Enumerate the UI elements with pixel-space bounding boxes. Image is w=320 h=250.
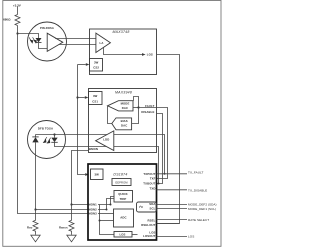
node laser anode dot bbox=[53, 133, 55, 135]
wire RSELOUT stub bbox=[157, 223, 180, 225]
svg-text:TXPOUT: TXPOUT bbox=[143, 172, 155, 176]
arrowhead LOS bbox=[142, 53, 146, 56]
svg-text:EEPROM: EEPROM bbox=[115, 180, 128, 184]
block 3W CS2 bbox=[90, 59, 103, 72]
wire D1 cathode to TIA input bbox=[39, 43, 48, 49]
op-amp LA limiting amplifier bbox=[96, 33, 111, 52]
block ADC bbox=[114, 209, 134, 227]
svg-text:3W: 3W bbox=[94, 173, 99, 177]
wire VCC to resistor bbox=[17, 7, 19, 15]
svg-text:ADC: ADC bbox=[120, 216, 126, 220]
block 3W (DS1874) bbox=[91, 169, 104, 180]
resistor RMD bbox=[33, 210, 38, 235]
svg-text:680Ω: 680Ω bbox=[3, 18, 11, 22]
wire mux bus to ADC and LOS bbox=[100, 205, 115, 235]
wire LOS net to DS1874 LOS pin bbox=[157, 55, 180, 224]
wire LOSOUT to LOS external bbox=[157, 236, 188, 238]
wire MODE DAC top hook to fault column bbox=[134, 97, 139, 108]
wire node A to ROSA photodiode anode bbox=[18, 34, 39, 39]
arrowhead 3W bus into DS1874 bbox=[85, 173, 89, 176]
wire 3W bus rail bbox=[78, 65, 86, 175]
block I2C interface bbox=[137, 202, 157, 212]
light arrows into D1 bbox=[29, 37, 37, 43]
resistor RBMON bbox=[69, 205, 74, 235]
wire TIA out- to LA bbox=[59, 44, 96, 46]
svg-text:LOSOUT: LOSOUT bbox=[143, 234, 156, 238]
svg-text:TXD: TXD bbox=[150, 187, 156, 191]
node A junction dot bbox=[16, 32, 18, 34]
wire laser cathode to LDD bbox=[55, 142, 107, 146]
node MON1 dot bbox=[110, 204, 112, 206]
node bus dot bbox=[99, 220, 101, 222]
wire MODE DAC point to BIAS DAC point bbox=[108, 106, 112, 124]
node FAULT junction dot bbox=[137, 106, 139, 108]
IC U3 DS1874 box bbox=[88, 164, 157, 240]
wire resistor to node A bbox=[17, 26, 19, 34]
svg-text:TX_FAULT: TX_FAULT bbox=[188, 171, 204, 175]
node stub upper dot bbox=[164, 173, 166, 175]
svg-text:3W: 3W bbox=[93, 94, 98, 98]
op-amp TIA (ROSA preamp) bbox=[47, 33, 63, 51]
block EEPROM bbox=[112, 179, 131, 186]
wire MON1 to QUICK TRIP bbox=[98, 197, 114, 205]
node BMON junction dot bbox=[70, 203, 72, 205]
svg-text:LOS: LOS bbox=[147, 52, 153, 56]
svg-text:DISABLE: DISABLE bbox=[141, 110, 154, 114]
wire BMON to MON1 bbox=[72, 151, 89, 205]
wire MON2 to QUICK TRIP bbox=[98, 199, 114, 210]
wire node A rail down to MON3 bbox=[18, 34, 89, 214]
wire MODE DAC out to junction bbox=[133, 107, 139, 109]
wire SDA to MODE_DEF2 bbox=[157, 204, 188, 206]
wire FAULT net to TXF bbox=[157, 108, 168, 179]
svg-text:DFB TOSA: DFB TOSA bbox=[38, 126, 53, 130]
block BIAS DAC bbox=[112, 118, 132, 130]
wire 3W bus arrow into CS1 bbox=[78, 97, 85, 99]
svg-text:TRIP: TRIP bbox=[120, 197, 127, 201]
IC U1 MAX3748 box bbox=[90, 29, 157, 75]
svg-text:MON3: MON3 bbox=[88, 212, 97, 216]
PIN-ROSA circle bbox=[28, 22, 67, 61]
wire LDD stub upper to TXF row bbox=[114, 135, 165, 174]
svg-text:MODE_DEF1 (SCL): MODE_DEF1 (SCL) bbox=[188, 207, 216, 211]
node PD rail junction dot bbox=[34, 208, 36, 210]
svg-text:MODE: MODE bbox=[121, 102, 130, 106]
svg-text:+3.3V: +3.3V bbox=[13, 4, 21, 8]
wire TIA out+ to LA bbox=[55, 38, 96, 40]
wire junction down to BIAS DAC out bbox=[132, 108, 139, 124]
block QUICK TRIP bbox=[114, 191, 133, 203]
svg-text:LOS: LOS bbox=[119, 233, 125, 237]
laser diode D3 (TOSA) bbox=[51, 135, 57, 143]
svg-text:PIN-ROSA: PIN-ROSA bbox=[40, 26, 54, 30]
svg-text:LOS: LOS bbox=[188, 234, 194, 238]
node 3W bus junction dot bbox=[76, 96, 78, 98]
svg-text:MAX3748: MAX3748 bbox=[112, 30, 129, 34]
svg-text:SCL: SCL bbox=[150, 206, 156, 210]
wire DISABLE net to TXBOUT bbox=[157, 114, 163, 184]
svg-text:LA: LA bbox=[100, 41, 104, 45]
photodiode D2 monitor (TOSA) bbox=[32, 135, 38, 143]
block LOS (DS1874) bbox=[114, 232, 132, 238]
wire 3W bus arrow into CS2 bbox=[78, 64, 86, 66]
wire SCL to MODE_DEF1 bbox=[157, 208, 188, 210]
block 3W CS1 bbox=[89, 92, 103, 105]
svg-text:CS1: CS1 bbox=[92, 99, 98, 103]
wire LA to LOS arrow bbox=[104, 48, 143, 55]
node stub lower dot bbox=[158, 183, 160, 185]
svg-text:QUICK: QUICK bbox=[118, 192, 128, 196]
svg-text:TXBOUT: TXBOUT bbox=[143, 182, 155, 186]
wire LOS block stub bbox=[132, 234, 138, 236]
wire bus to ADC bbox=[100, 220, 114, 222]
wire PD anode down to MON2 bbox=[36, 142, 89, 209]
svg-text:TXF: TXF bbox=[150, 177, 156, 181]
ground (RBMON) bbox=[67, 235, 76, 242]
svg-text:CS2: CS2 bbox=[93, 66, 99, 70]
wire TXD to TX_DISABLE bbox=[157, 189, 188, 191]
svg-text:FAULT: FAULT bbox=[145, 104, 155, 108]
svg-text:MAX3948: MAX3948 bbox=[115, 90, 132, 94]
svg-text:BIAS: BIAS bbox=[121, 119, 128, 123]
wire FAULT junction to pin bbox=[139, 107, 157, 109]
svg-text:DAC: DAC bbox=[122, 106, 128, 110]
wire TOSA anode top bbox=[36, 134, 55, 136]
wire LDD stub lower to TXBOUT row bbox=[114, 147, 159, 184]
node MON2 dot bbox=[106, 209, 108, 211]
block MODE DAC bbox=[108, 101, 134, 111]
svg-text:RSELOUT: RSELOUT bbox=[141, 223, 155, 227]
svg-text:TX_DISABLE: TX_DISABLE bbox=[188, 188, 207, 192]
svg-text:DS1874: DS1874 bbox=[113, 173, 127, 177]
wire RSEL to RATE SELECT bbox=[157, 219, 188, 221]
resistor 680ohm bbox=[15, 15, 20, 26]
wire laser anode rail to MAX3948 bbox=[55, 134, 107, 136]
svg-text:3W: 3W bbox=[94, 60, 99, 64]
wire MON3 internal to ADC bbox=[98, 213, 114, 215]
photodiode D1 (ROSA) bbox=[36, 38, 42, 43]
svg-text:MON1: MON1 bbox=[88, 202, 97, 206]
DFB TOSA circle bbox=[28, 121, 66, 159]
wire TXPOUT to TX_FAULT bbox=[157, 173, 188, 175]
svg-text:LDD: LDD bbox=[103, 138, 109, 142]
IC U2 MAX3948 box bbox=[89, 89, 157, 153]
svg-text:RATE SELECT: RATE SELECT bbox=[188, 218, 209, 222]
figure border frame bbox=[3, 1, 221, 247]
svg-text:BMON: BMON bbox=[89, 147, 98, 151]
op-amp LDD output stage bbox=[96, 131, 114, 151]
ground (RMD) bbox=[31, 235, 40, 242]
svg-text:I²C: I²C bbox=[139, 205, 143, 209]
light arrows laser to PD bbox=[43, 137, 50, 143]
svg-text:DAC: DAC bbox=[121, 124, 127, 128]
